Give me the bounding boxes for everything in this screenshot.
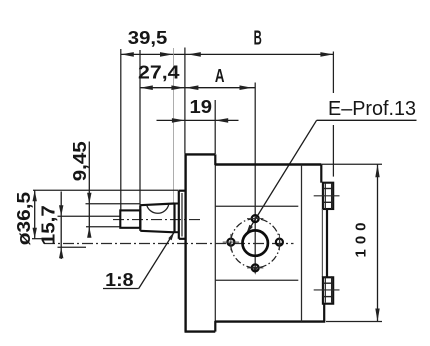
taper top edge: [140, 204, 174, 206]
arrowhead 9,45 top (points down): [87, 193, 91, 204]
dimension line 39,5 / B: [121, 53, 334, 55]
dimension line 19: [157, 119, 239, 121]
dimension line 27,4 / A: [140, 87, 255, 89]
extension line at flange face x=184.9: [184, 48, 186, 154]
1:8 leader line: [139, 232, 175, 289]
extension line y=247.3: [58, 246, 87, 248]
taper-to-pilot connectors: [175, 203, 179, 205]
shaft shoulder: [139, 205, 141, 231]
extension line 100 top y=164.3: [322, 163, 383, 165]
arrowhead B left: [188, 52, 201, 57]
extension line B right x=336.3 (broken around E-Prof text): [332, 52, 334, 94]
arrowhead dia36,5 top: [33, 190, 37, 201]
pilot chamfer line: [181, 193, 183, 237]
extension line at shoulder x=139.8: [139, 50, 141, 205]
taper big end face: [173, 203, 175, 233]
svg-text:15,7: 15,7: [39, 205, 59, 245]
bottom port boss outline: [323, 277, 333, 303]
top boss inner verticals: [324, 183, 326, 209]
svg-text:1:8: 1:8: [105, 270, 133, 290]
dimension line 9,45 x=89.3: [88, 142, 90, 237]
pilot front face: [178, 191, 180, 239]
extension line at shaft tip x=120.8: [120, 49, 122, 210]
svg-text:B: B: [254, 28, 262, 50]
arrowhead 39,5 right: [160, 52, 173, 57]
taper bottom edge: [140, 231, 174, 233]
shaft end cylinder: [120, 210, 140, 227]
svg-text:27,4: 27,4: [138, 63, 180, 83]
body top edge: [215, 163, 321, 165]
cover edge between bosses (bold): [326, 209, 328, 277]
bolt circle (dash-dot): [231, 219, 280, 268]
E-Prof.13 leader arrowhead: [246, 225, 253, 234]
svg-text:19: 19: [190, 97, 213, 117]
E-Prof.13 leader line: [246, 120, 316, 234]
hole tick marks: [247, 218, 263, 220]
arrowhead 15,7 bottom (points up): [59, 247, 63, 258]
bolt hole top: [252, 215, 259, 222]
extension tick pilot bottom y=238.7: [32, 238, 45, 240]
svg-text:9,45: 9,45: [70, 141, 90, 181]
dimension line 15,7 x=61.2: [60, 192, 62, 260]
arrowhead 100 top: [375, 164, 379, 177]
top boss centerline: [314, 195, 340, 197]
cover chamfer line between bosses (thin): [321, 209, 323, 277]
horizontal centerline of circles y=243.5 (dash-dot): [44, 243, 294, 245]
arrowhead dia36,5 bottom: [33, 228, 37, 239]
extension line shaft centerline level y=216.3: [58, 215, 120, 217]
flange/body joint line: [214, 165, 216, 322]
E-Prof.13 underline: [317, 119, 417, 121]
cover edge below bottom boss (bold): [323, 304, 325, 322]
svg-text:39,5: 39,5: [128, 28, 168, 48]
pilot top edge: [179, 190, 186, 192]
keyway arc: [147, 205, 169, 214]
extension line at taper face x=173.5: [173, 48, 175, 203]
bottom boss centerline: [314, 289, 340, 291]
arrowhead 27,4 right: [171, 85, 184, 90]
pilot bottom edge: [179, 238, 186, 240]
shaft centerline (dash-dot) y=217.4: [113, 219, 201, 221]
top port boss outline: [323, 183, 333, 209]
body section line upper: [215, 205, 298, 207]
extension line 100 bottom y=321.5: [326, 321, 382, 323]
extension line 19 right x=215.2: [214, 100, 216, 154]
extension line y=226: [86, 226, 120, 228]
bolt hole bottom: [252, 264, 259, 271]
arrowhead 9,45 bottom (points up): [87, 227, 91, 238]
dimension line dia36,5 x=34.7: [34, 190, 36, 238]
arrowhead 19 left (outside): [172, 118, 185, 123]
arrowhead 27,4 left: [140, 85, 153, 90]
svg-text:A: A: [215, 66, 225, 86]
bolt hole left: [227, 239, 234, 246]
body/cover joint line: [301, 165, 303, 322]
arrowhead bottom of vertical centerline: [253, 267, 258, 275]
arrowhead 19 right (outside): [215, 118, 228, 123]
extension line pilot top y=190.3: [33, 189, 179, 191]
dimension line 100: [377, 164, 379, 321]
arrowhead 15,7 top (points down): [59, 205, 63, 216]
arrowhead 39,5 left: [121, 52, 134, 57]
cover step top: [320, 165, 322, 183]
body section line lower: [215, 279, 298, 281]
bolt hole right: [276, 239, 283, 246]
bottom boss inner verticals: [324, 276, 326, 302]
arrowhead A right: [240, 85, 253, 90]
bottom boss inner horizontals: [323, 282, 333, 284]
top boss inner horizontals: [323, 188, 333, 190]
1:8 leader arrowhead: [168, 232, 174, 240]
vertical centerline of front-view circles x=255.2: [254, 83, 256, 268]
arrowhead A left: [185, 85, 198, 90]
extension line taper top y=203.8: [86, 203, 141, 205]
central bore circle: [243, 230, 268, 255]
svg-text:ø36,5: ø36,5: [14, 192, 34, 246]
svg-text:E–Prof.13: E–Prof.13: [328, 98, 416, 120]
mounting flange outline: [184, 154, 186, 331]
body bottom edge: [215, 320, 325, 322]
arrowhead B right: [320, 52, 333, 57]
1:8 underline: [103, 288, 139, 290]
arrowhead 100 bottom: [375, 309, 379, 322]
svg-text:100: 100: [352, 223, 369, 258]
